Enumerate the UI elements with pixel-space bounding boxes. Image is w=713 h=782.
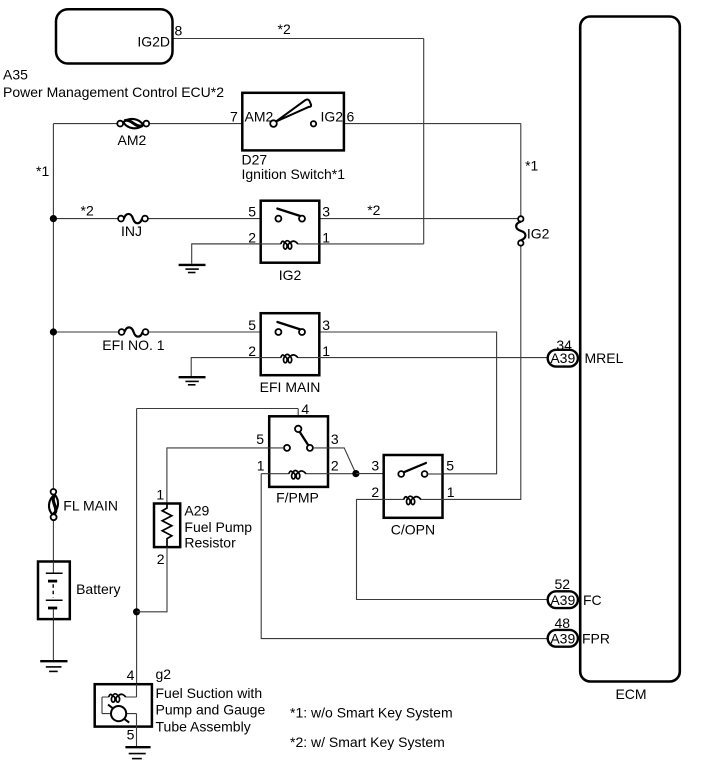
contact circle AM2 side: [270, 120, 277, 127]
wire F/PMP pin 4: [137, 409, 299, 426]
svg-text:*1: w/o Smart Key System: *1: w/o Smart Key System: [290, 705, 453, 721]
wire C/OPN pin 1 to IG2 fuse: [443, 246, 521, 500]
switch arm C/OPN: [404, 463, 426, 472]
svg-text:Power Management Control ECU*2: Power Management Control ECU*2: [3, 84, 224, 100]
svg-text:IG2D: IG2D: [137, 34, 170, 50]
wire IG2D to IG2 relay coil vertical: [423, 39, 425, 244]
svg-text:A39: A39: [550, 630, 575, 646]
junction dot INJ row: [50, 215, 57, 222]
contact circles EFI MAIN: [275, 329, 281, 335]
coil C/OPN: [384, 498, 443, 500]
ground IG2 relay: [179, 265, 206, 273]
wire junction to C/OPN pin 3: [356, 473, 398, 475]
svg-text:Resistor: Resistor: [184, 535, 236, 551]
svg-text:FPR: FPR: [582, 630, 610, 646]
relay C/OPN box: [384, 455, 443, 518]
junction dot EFI row: [50, 328, 57, 335]
svg-text:48: 48: [555, 615, 571, 631]
svg-text:5: 5: [248, 317, 256, 333]
coil EFI MAIN: [261, 357, 320, 359]
switch arm F/PMP: [300, 432, 309, 446]
ground battery: [40, 661, 67, 671]
wire C/OPN pin 5 internal: [428, 473, 443, 475]
contact circle IG2 side: [311, 121, 316, 126]
svg-text:A35: A35: [3, 67, 28, 83]
svg-text:Fuel Suction with: Fuel Suction with: [156, 685, 263, 701]
svg-text:5: 5: [446, 457, 454, 473]
wire IG2 relay pin 2 to ground: [192, 244, 261, 264]
ground EFI MAIN: [179, 377, 206, 385]
left bus wire: [52, 124, 54, 661]
svg-text:1: 1: [322, 230, 330, 246]
key wedge switch arm D27: [276, 99, 311, 121]
svg-text:IG2: IG2: [279, 267, 302, 283]
svg-text:C/OPN: C/OPN: [391, 521, 435, 537]
svg-text:g2: g2: [156, 666, 172, 682]
coil F/PMP: [261, 473, 356, 475]
wire F/PMP pin 5 to A29 pin 1: [167, 448, 284, 504]
wire IG2 relay pin 1: [320, 243, 424, 245]
svg-text:8: 8: [175, 23, 183, 39]
pump box g2: [95, 684, 152, 726]
fuse IG2 vertical: [516, 216, 550, 246]
bus wire down to pump g2: [136, 409, 138, 685]
svg-text:Tube Assembly: Tube Assembly: [156, 718, 251, 734]
svg-text:1: 1: [156, 487, 164, 503]
fuse EFI NO. 1: [102, 327, 164, 353]
svg-text:EFI MAIN: EFI MAIN: [260, 379, 321, 395]
zigzag resistor: [162, 504, 172, 548]
svg-text:AM2: AM2: [245, 109, 274, 125]
svg-text:MREL: MREL: [585, 350, 624, 366]
svg-text:FC: FC: [583, 592, 602, 608]
ground pump: [125, 747, 150, 758]
svg-text:3: 3: [322, 204, 330, 220]
svg-text:3: 3: [322, 317, 330, 333]
battery box: [38, 562, 70, 620]
wire C/OPN pin 2 to FC: [357, 499, 548, 599]
A35 ECU box: [56, 9, 173, 63]
pump internals: [102, 684, 137, 726]
relay IG2 box: [261, 201, 320, 263]
wire A29 pin 2 to bus: [137, 547, 167, 612]
wire F/PMP pin 1 to FPR: [261, 474, 548, 639]
svg-text:FL MAIN: FL MAIN: [63, 498, 118, 514]
svg-text:*1: *1: [36, 163, 49, 179]
fusible link FL MAIN: [48, 489, 118, 520]
fuse INJ: [118, 214, 148, 239]
wire EFI MAIN pin 2 to ground: [191, 358, 261, 377]
wire F/PMP pin 3 to junction: [313, 448, 356, 474]
coil IG2 relay: [192, 243, 320, 245]
svg-text:2: 2: [371, 484, 379, 500]
svg-text:5: 5: [256, 431, 264, 447]
svg-text:Pump and Gauge: Pump and Gauge: [156, 702, 266, 718]
svg-text:4: 4: [301, 401, 309, 417]
svg-text:7: 7: [230, 109, 238, 125]
svg-text:EFI NO. 1: EFI NO. 1: [102, 337, 164, 353]
switch arm EFI MAIN: [277, 322, 300, 330]
connector A39 FC oval: [548, 591, 578, 608]
contact circles IG2 relay: [275, 216, 281, 222]
svg-text:3: 3: [371, 457, 379, 473]
resistor A29 box: [154, 504, 180, 548]
svg-text:*1: *1: [525, 158, 538, 174]
wire AM2 row: [53, 123, 520, 125]
contact circles F/PMP: [284, 445, 290, 451]
svg-text:*2: *2: [278, 21, 291, 37]
svg-text:*2: *2: [367, 202, 380, 218]
svg-text:Battery: Battery: [76, 581, 120, 597]
svg-text:2: 2: [248, 230, 256, 246]
svg-text:5: 5: [248, 204, 256, 220]
connector A39 FPR oval: [548, 630, 578, 647]
svg-text:AM2: AM2: [118, 132, 147, 148]
svg-text:*2: w/ Smart Key System: *2: w/ Smart Key System: [290, 734, 445, 750]
svg-text:*2: *2: [81, 202, 94, 218]
wire EFI row: [53, 332, 496, 474]
switch arm IG2 relay: [277, 209, 300, 217]
wire g2 to ground: [136, 727, 138, 747]
svg-text:5: 5: [127, 726, 135, 742]
svg-text:F/PMP: F/PMP: [276, 490, 319, 506]
svg-text:A29: A29: [184, 502, 209, 518]
svg-text:IG2: IG2: [527, 225, 550, 241]
svg-text:2: 2: [248, 343, 256, 359]
svg-text:Ignition Switch*1: Ignition Switch*1: [242, 166, 346, 182]
junction dot A29 pin 2: [133, 608, 140, 615]
junction dot F/PMP pin3 pin2: [352, 470, 359, 477]
fusible link AM2: [117, 118, 149, 148]
wire IG2D pin 8 horizontal: [173, 38, 424, 40]
svg-text:52: 52: [555, 576, 571, 592]
wire INJ row: [53, 218, 518, 220]
ECM box: [580, 17, 680, 682]
svg-text:A39: A39: [550, 350, 575, 366]
svg-text:1: 1: [447, 484, 455, 500]
wire EFI MAIN pin 1 to MREL: [320, 357, 548, 359]
svg-text:IG2: IG2: [321, 109, 344, 125]
contact circles C/OPN: [398, 471, 404, 477]
svg-text:6: 6: [347, 109, 355, 125]
relay F/PMP box: [269, 416, 328, 487]
svg-text:1: 1: [322, 343, 330, 359]
ignition switch D27 box: [242, 93, 344, 151]
svg-text:Fuel Pump: Fuel Pump: [184, 519, 252, 535]
pin 4 contact circle: [295, 426, 301, 432]
svg-text:ECM: ECM: [615, 686, 646, 702]
svg-text:1: 1: [257, 458, 265, 474]
relay EFI MAIN box: [261, 313, 320, 375]
svg-text:4: 4: [127, 667, 135, 683]
wire D27 pin6 down to IG2 fuse: [520, 124, 522, 217]
battery internals: [46, 562, 63, 620]
svg-text:3: 3: [331, 431, 339, 447]
svg-text:A39: A39: [550, 592, 575, 608]
svg-text:INJ: INJ: [121, 223, 142, 239]
connector A39 MREL oval: [548, 350, 578, 367]
svg-text:2: 2: [157, 551, 165, 567]
svg-text:2: 2: [331, 458, 339, 474]
